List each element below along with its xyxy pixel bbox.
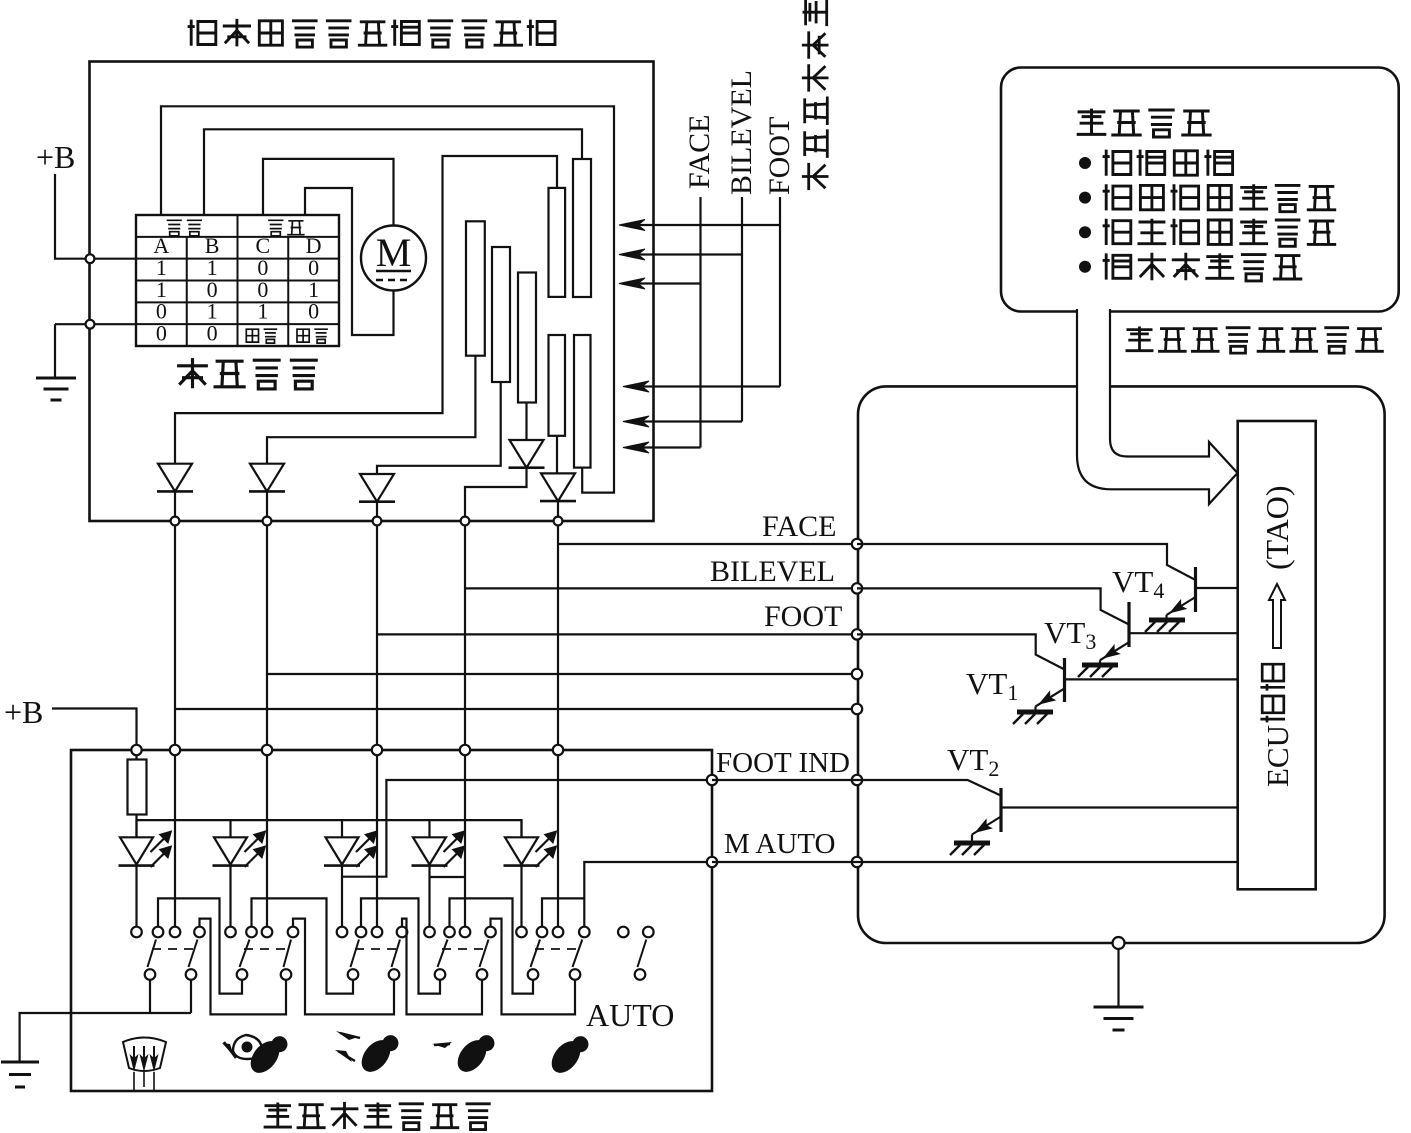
diode D3 (360, 474, 394, 502)
switch group 2 upper contacts (225, 927, 236, 938)
icon: face vent (233, 1035, 262, 1059)
contact strip R3 (518, 273, 536, 403)
wire R4 top to diode D1 anode (175, 156, 557, 464)
contact strip R4 (549, 188, 566, 297)
switch blade 5b (573, 940, 583, 968)
auto control callout bubble (1001, 68, 1399, 312)
wire FOOT IND to VT2 collector (712, 780, 1001, 796)
switch group 1 lower contacts (145, 969, 156, 980)
wire bridge 1a (upper b to next lower p) (158, 898, 242, 993)
label 自动空调器放大器 (1126, 327, 1384, 354)
switch group 3 upper contacts (337, 927, 348, 938)
svg-text:BILEVEL: BILEVEL (725, 70, 758, 195)
contact strip R1 (466, 221, 485, 355)
wire FACE position line (699, 197, 701, 448)
wire +B to node A (55, 174, 136, 259)
svg-text:M AUTO: M AUTO (724, 828, 835, 860)
wire R1 bottom to diode D2 anode (267, 356, 475, 464)
switch blade 2a (240, 940, 250, 968)
label 驱动电路 (177, 358, 318, 389)
wire bridge 1b (upper d to next lower q) (200, 919, 287, 1015)
wire BILEVEL position line (741, 197, 743, 422)
transistor VT1 (1063, 658, 1066, 702)
wire FACE signal (558, 543, 857, 545)
switch group 3 lower contacts (348, 969, 359, 980)
terminal servo 1 on panel edge (170, 745, 180, 755)
wire BILEVEL signal (465, 587, 857, 589)
switch blade 4b (480, 940, 489, 968)
terminal FOOT IND on panel edge (707, 775, 717, 785)
node B on servo box edge (86, 320, 95, 329)
icon: foot only (546, 1029, 592, 1079)
ground (amplifier) (1117, 949, 1119, 1007)
svg-text:ECU: ECU (1260, 725, 1295, 787)
wire LED4 cathode to servo line 4 (430, 876, 466, 878)
wire D4 cathode to node N4 (465, 468, 527, 516)
terminal FOOT on amplifier edge (852, 629, 862, 639)
moving contact arrow (lower, FOOT) (643, 385, 780, 387)
wire FOOT IND (panel internal to LED3) (342, 780, 712, 877)
wire FOOT to VT1 collector (857, 634, 1065, 669)
svg-text:+B: +B (36, 139, 75, 175)
label: title 气流方式控制伺服电动机 (188, 19, 555, 47)
icon: defrost vent (123, 1038, 166, 1072)
motor M (361, 226, 426, 291)
diode D2 (250, 464, 284, 492)
node A on servo box edge (86, 254, 95, 263)
LED 2 (229, 820, 231, 837)
wire signal (v2 to amplifier) (267, 673, 857, 675)
svg-text:FACE: FACE (683, 115, 716, 189)
LED 5 (520, 820, 522, 837)
terminal servo 2 on panel edge (262, 745, 272, 755)
heater control panel box 暖风装置控制板 (71, 750, 712, 1091)
terminal BILEVEL on amplifier edge (852, 583, 862, 593)
mechanical link 2 (dashed) (244, 948, 288, 950)
moving contact arrow (upper, FACE) (639, 282, 701, 284)
mechanical link 5 (dashed) (535, 948, 577, 950)
node N3 on servo box bottom (373, 517, 382, 526)
wire M AUTO to ECU (712, 861, 1238, 863)
label ECU微机 (rotated) (1260, 664, 1285, 722)
ground (top left) (54, 324, 56, 378)
terminal +B on panel edge (131, 745, 141, 755)
servo motor unit box 气流方式控制伺服电动机 (90, 62, 654, 522)
wire +B to panel terminal (52, 709, 137, 746)
switch blade 2b (284, 940, 292, 968)
diode D4 (510, 440, 544, 468)
svg-text:FOOT: FOOT (764, 600, 842, 633)
svg-text:0: 0 (156, 321, 167, 346)
svg-text:1: 1 (257, 299, 268, 324)
wire bridge 2a (upper b to next lower p) (252, 898, 354, 993)
AUTO switch contacts (618, 927, 629, 938)
wire D-column to motor bottom (305, 188, 394, 335)
terminal FOOT IND on amplifier edge (852, 775, 862, 785)
switch group 4 lower contacts (435, 969, 446, 980)
resistor R (current limit) (135, 755, 137, 760)
wire bridge 4b (upper d to next lower q) (491, 919, 576, 1015)
wire servo output 2 vertical (266, 525, 268, 750)
switch blade 3a (351, 940, 360, 968)
terminal servo 4 on panel edge (460, 745, 470, 755)
svg-text:(TAO): (TAO) (1259, 485, 1295, 570)
terminal M AUTO on amplifier edge (852, 857, 862, 867)
bullet item 车内气温传感器 (1079, 192, 1091, 204)
svg-text:M: M (376, 230, 412, 275)
mechanical link 3 (dashed) (355, 948, 396, 950)
terminal FACE on amplifier edge (852, 539, 862, 549)
wire R3 bottom to diode D4 anode (525, 403, 527, 441)
ECU microcomputer box (1238, 421, 1316, 889)
icon: bilevel vent (336, 1031, 358, 1040)
contact strip R6 (549, 335, 566, 436)
diode D1 (158, 464, 192, 492)
moving contact arrow (lower, FACE) (643, 446, 701, 448)
wire R6 bottom to diode D5 anode (556, 436, 558, 474)
wire bridge 3b (upper d to next lower q) (402, 919, 482, 1015)
symbol arrow up (hollow) (1269, 584, 1285, 648)
mechanical link 1 (dashed) (152, 948, 193, 950)
node N2 on servo box bottom (263, 517, 272, 526)
contact strip R5 (573, 159, 591, 297)
wire C-column to motor top (263, 159, 394, 226)
bubble title 自动控制 (1077, 109, 1212, 137)
callout funnel arrow into ECU (1077, 309, 1238, 504)
wire servo output 3 vertical (376, 525, 378, 750)
wire FOOT position line (779, 197, 781, 387)
node N4 on servo box bottom (461, 517, 470, 526)
svg-text:FOOT IND: FOOT IND (716, 747, 850, 779)
wire servo output 5 vertical (557, 525, 559, 750)
ground (panel, bottom left) (1, 1061, 39, 1064)
LED 1 (135, 820, 137, 837)
svg-text:FOOT: FOOT (763, 117, 796, 195)
switch group 4 upper contacts (424, 927, 435, 938)
wire lower contacts 1,2 to ground (20, 980, 191, 1062)
bullet item 车外气温传感器 (1079, 226, 1091, 238)
bullet item 设定温度 (1079, 157, 1091, 169)
terminal sig5 on amplifier edge (852, 704, 862, 714)
switch blade 5a (531, 940, 541, 968)
svg-text:0: 0 (308, 299, 319, 324)
svg-text:BILEVEL: BILEVEL (710, 555, 835, 588)
wire B-column to contact R5 top (204, 129, 582, 215)
wire ground to node B (55, 323, 136, 325)
label 移动触点位置 (rotated) (802, 0, 829, 190)
transistor VT2 (999, 788, 1002, 832)
contact strip R7 (574, 335, 591, 468)
truth table of drive circuit (136, 215, 339, 346)
switch group 1 upper contacts (131, 927, 142, 938)
transistor VT3 (1127, 602, 1130, 647)
wire R2 bottom to diode D3 anode (377, 382, 501, 474)
switch group 5 lower contacts (528, 969, 539, 980)
switch blade 1a (148, 940, 157, 968)
wire bridge 2b (upper d to next lower q) (293, 919, 394, 1015)
wire servo output 1 vertical (174, 525, 176, 750)
icon: foot vent (432, 1042, 452, 1048)
wire servo output 4 vertical (464, 525, 466, 750)
wire FOOT signal (377, 633, 857, 635)
table cells 断路 断路 (246, 329, 277, 343)
moving contact arrow (upper, BILEVEL) (639, 253, 742, 255)
switch blade 3b (392, 940, 401, 968)
moving contact arrow (lower, BILEVEL) (643, 420, 742, 422)
contact strip R2 (492, 247, 510, 382)
switch blade 4a (438, 940, 448, 968)
mechanical link 4 (dashed) (442, 948, 484, 950)
svg-text:FACE: FACE (762, 510, 836, 543)
wire M AUTO (panel internal) (584, 862, 712, 927)
label 暖风装置控制板 (264, 1102, 491, 1130)
terminal servo 3 on panel edge (372, 745, 382, 755)
automatic A/C amplifier box (858, 386, 1385, 943)
node on amplifier bottom (1113, 937, 1125, 949)
switch blade 1b (189, 940, 198, 968)
diode D5 (541, 473, 575, 501)
LED 4 (428, 820, 430, 837)
node N5 on servo box bottom (554, 517, 563, 526)
terminal sig4 on amplifier edge (852, 669, 862, 679)
terminal M AUTO on panel edge (707, 857, 717, 867)
wire bridge 4a (upper b to next lower p) (450, 898, 534, 993)
LED 3 (341, 820, 343, 837)
svg-text:+B: +B (4, 694, 43, 730)
wire BILEVEL to VT3 collector (857, 588, 1129, 624)
transistor VT4 (1194, 567, 1197, 612)
wire bridge 5a (joins M AUTO drop) (542, 898, 584, 926)
table header 输入 输出 (167, 220, 202, 236)
switch group 2 lower contacts (237, 969, 248, 980)
svg-text:0: 0 (207, 321, 218, 346)
moving contact arrow (upper, FOOT) (639, 224, 780, 226)
wire LED anode bus (137, 820, 522, 837)
wire bridge 3a (upper b to next lower p) (361, 898, 440, 993)
AUTO switch blade (638, 940, 647, 968)
node N1 on servo box bottom (171, 517, 180, 526)
svg-text:AUTO: AUTO (586, 997, 674, 1033)
bullet item 太阳能传感器 (1079, 261, 1091, 273)
switch group 5 upper contacts (516, 927, 527, 938)
terminal servo 5 on panel edge (553, 745, 563, 755)
wire signal (v1 to amplifier) (175, 708, 857, 710)
wire FACE to VT4 collector (857, 544, 1196, 580)
wire A-column to contact R7 bottom (161, 106, 614, 492)
